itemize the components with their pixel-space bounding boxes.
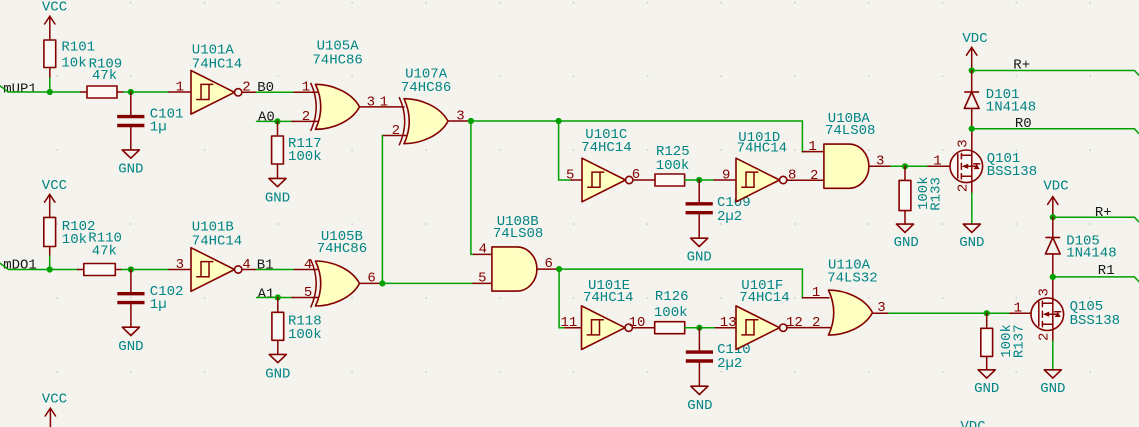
ground (Q101) [963, 224, 980, 232]
svg-text:2: 2 [812, 315, 820, 331]
svg-text:1: 1 [808, 139, 816, 155]
wire A0 [257, 120, 293, 122]
svg-text:10k: 10k [62, 232, 87, 248]
svg-text:5: 5 [478, 271, 486, 287]
svg-text:1µ: 1µ [150, 297, 167, 313]
svg-text:100k: 100k [288, 327, 322, 343]
svg-text:4: 4 [479, 242, 487, 258]
junction R102/mDO1 [47, 266, 53, 272]
wire U10BA out to Q101 gate [891, 165, 928, 167]
pin 8 (U101D) [787, 179, 824, 181]
ground (R133) [896, 224, 913, 232]
svg-text:GND: GND [687, 398, 712, 414]
svg-text:2µ2: 2µ2 [717, 209, 742, 225]
pin 4 (U105B) [295, 269, 319, 271]
svg-text:GND: GND [265, 191, 290, 207]
xor gate U107A 74HC86 [404, 99, 448, 144]
svg-text:GND: GND [265, 367, 290, 383]
svg-text:2: 2 [302, 109, 310, 125]
inverter U101E 74HC14 [565, 327, 582, 329]
svg-text:47k: 47k [92, 244, 117, 260]
wire R109 to U101A [124, 91, 170, 93]
xor gate U105A 74HC86 [316, 84, 360, 129]
svg-text:47k: 47k [92, 68, 117, 84]
and gate U108A 74LS08 [824, 144, 869, 188]
svg-text:1: 1 [933, 153, 941, 169]
junction C101 tap [128, 89, 134, 95]
transistor Q101 BSS138 [950, 150, 983, 183]
wire junction down to U108B pin4 [471, 121, 474, 254]
svg-text:B0: B0 [257, 80, 274, 96]
resistor R137 [986, 313, 988, 328]
svg-text:R126: R126 [655, 289, 689, 305]
svg-text:9: 9 [722, 167, 730, 183]
svg-text:3: 3 [876, 154, 884, 170]
junction R0 [969, 126, 975, 132]
pin 3 (U110A out) [873, 312, 889, 314]
svg-text:mUP1: mUP1 [3, 81, 37, 97]
transistor Q105 BSS138 [1031, 298, 1064, 331]
resistor R110 [78, 269, 84, 271]
resistor R101 [49, 68, 51, 79]
svg-text:100k: 100k [654, 305, 688, 321]
svg-text:BSS138: BSS138 [987, 164, 1037, 180]
pin 10 (U101E) [632, 327, 654, 329]
or gate U110A 74LS32 [829, 290, 873, 335]
svg-text:VCC: VCC [42, 178, 67, 194]
capacitor C110 [698, 328, 700, 352]
svg-text:R137: R137 [1012, 324, 1028, 358]
svg-text:3: 3 [877, 300, 885, 316]
svg-text:GND: GND [894, 235, 919, 251]
svg-text:74HC14: 74HC14 [737, 141, 787, 157]
svg-text:VDC: VDC [1043, 178, 1068, 194]
svg-text:74HC86: 74HC86 [401, 80, 451, 96]
svg-text:GND: GND [118, 162, 143, 178]
capacitor C102 [130, 270, 132, 294]
svg-text:74LS08: 74LS08 [825, 123, 875, 139]
junction U107A out [468, 118, 474, 124]
pin 4 (U101B) [242, 269, 257, 271]
svg-text:1: 1 [176, 80, 184, 96]
svg-text:1N4148: 1N4148 [986, 99, 1036, 115]
svg-text:8: 8 [788, 168, 796, 184]
svg-text:VCC: VCC [42, 0, 67, 15]
svg-text:6: 6 [545, 256, 553, 272]
svg-text:3: 3 [956, 139, 972, 147]
svg-text:6: 6 [367, 271, 375, 287]
svg-text:VDC: VDC [960, 419, 985, 427]
ground (C110) [691, 386, 708, 394]
xor gate U105B 74HC86 [316, 261, 360, 306]
svg-text:2: 2 [242, 80, 250, 96]
svg-text:1: 1 [302, 80, 310, 96]
svg-text:3: 3 [456, 108, 464, 124]
junction C110 tap [696, 325, 702, 331]
svg-text:2: 2 [1037, 333, 1053, 341]
wire U110A out to Q105 gate [889, 312, 1010, 314]
svg-text:13: 13 [720, 315, 737, 331]
junction R118 tap [275, 294, 281, 300]
svg-text:A1: A1 [258, 287, 275, 303]
svg-text:74LS32: 74LS32 [827, 271, 877, 287]
diode D101 1N4148 [971, 71, 973, 93]
capacitor C101 [130, 92, 132, 116]
svg-text:74HC86: 74HC86 [312, 53, 362, 69]
junction split to U101C [556, 118, 562, 124]
svg-text:3: 3 [1037, 288, 1053, 296]
svg-text:3: 3 [367, 94, 375, 110]
svg-text:GND: GND [974, 381, 999, 397]
inverter U101F 74HC14 [736, 306, 780, 350]
svg-text:1µ: 1µ [150, 120, 167, 136]
pin 4 (U108B) [474, 253, 493, 255]
resistor R117 [277, 121, 279, 136]
svg-text:74HC14: 74HC14 [192, 56, 242, 72]
ground (R118) [269, 354, 286, 362]
junction R+ top [969, 67, 975, 73]
resistor R126 [655, 322, 685, 334]
wire U107A out to U10BA pin1 [468, 121, 806, 152]
pin 9 (U101D) [714, 179, 736, 181]
pin 1 (Q105) [1010, 312, 1039, 314]
svg-text:GND: GND [118, 339, 143, 355]
pin 2 (U105A) [292, 120, 319, 122]
junction R101/mUP1 [47, 89, 53, 95]
svg-text:R101: R101 [61, 40, 95, 56]
svg-text:4: 4 [242, 257, 250, 273]
junction C109 tap [696, 177, 702, 183]
wire mUP1 net [0, 86, 81, 92]
junction R1 [1050, 274, 1056, 280]
svg-text:1: 1 [1014, 301, 1022, 317]
pin 3 (U107A out) [448, 120, 468, 122]
diode D105 1N4148 [1052, 217, 1054, 237]
junction U105B out [379, 280, 385, 286]
svg-text:10: 10 [629, 315, 646, 331]
svg-text:R+: R+ [1095, 205, 1112, 221]
svg-text:2µ2: 2µ2 [717, 356, 742, 372]
pin 1 (Q101) [928, 165, 958, 167]
wire down to U101C pin5 [559, 121, 571, 180]
wire down to U101E pin11 [559, 269, 565, 328]
svg-text:74HC14: 74HC14 [581, 140, 631, 156]
wire B1 [257, 269, 295, 271]
svg-text:6: 6 [632, 167, 640, 183]
junction R133 tap [902, 163, 908, 169]
svg-text:12: 12 [786, 315, 803, 331]
svg-text:mDO1: mDO1 [3, 258, 37, 274]
ground (R137) [978, 370, 995, 378]
resistor R125 [655, 174, 685, 186]
svg-text:GND: GND [959, 235, 984, 251]
inverter U101D 74HC14 [736, 158, 780, 202]
svg-text:1: 1 [812, 285, 820, 301]
wire R126 to U101F [685, 327, 716, 329]
inverter U101A 74HC14 [169, 91, 191, 93]
svg-text:2: 2 [810, 168, 818, 184]
pin 6 (U105B out) [360, 282, 381, 284]
pin 5 (U105B) [292, 297, 319, 299]
pin 3 (U105A out) / wire to U107A [360, 106, 405, 108]
junction U108B out [556, 266, 562, 272]
svg-text:BSS138: BSS138 [1070, 313, 1120, 329]
pin 3 (U10BA out) [869, 165, 891, 167]
svg-text:GND: GND [687, 249, 712, 265]
wire mDO1 net [0, 263, 78, 269]
wire U105B out up to U107A pin2 [381, 136, 383, 284]
svg-text:A0: A0 [258, 110, 275, 126]
svg-text:B1: B1 [257, 257, 274, 273]
junction R137 tap [984, 310, 990, 316]
wire R+ bottom [1053, 217, 1139, 222]
pin 2 (Q101 source) [971, 176, 973, 193]
junction R+ bottom [1050, 214, 1056, 220]
wire R110 to U101B [122, 269, 170, 271]
pin 12 (U101F) [787, 327, 831, 329]
svg-text:1: 1 [380, 94, 388, 110]
svg-text:R133: R133 [928, 177, 944, 211]
pin 3 (Q101 drain) [971, 129, 973, 156]
wire R+ top [972, 71, 1139, 76]
junction R117 tap [274, 118, 280, 124]
svg-text:1N4148: 1N4148 [1066, 246, 1116, 262]
ground (C109) [691, 238, 708, 246]
svg-text:74HC14: 74HC14 [739, 290, 789, 306]
pin 1 (U105A) [294, 91, 319, 93]
wire R1 [1053, 277, 1139, 282]
svg-text:74LS08: 74LS08 [493, 226, 543, 242]
pin 5 (U108B) [473, 282, 492, 284]
svg-text:100k: 100k [288, 149, 322, 165]
svg-text:74HC86: 74HC86 [317, 241, 367, 257]
wire B0 [257, 91, 295, 93]
wire Q101 source to ground [971, 193, 973, 224]
wire R125 to U101D [685, 179, 714, 181]
svg-text:GND: GND [1040, 381, 1065, 397]
pin 2 (U107A) [382, 135, 407, 137]
resistor R102 [44, 217, 56, 246]
pin 3 (Q105 drain) [1052, 277, 1054, 303]
svg-text:VCC: VCC [42, 392, 67, 408]
and gate U108B 74LS08 [492, 247, 537, 291]
pin 2 (Q105 source) [1052, 324, 1054, 341]
wire A1 [257, 297, 293, 299]
svg-text:10k: 10k [61, 55, 86, 71]
pin 6 (U108B out) [537, 268, 557, 270]
svg-text:3: 3 [176, 257, 184, 273]
svg-text:11: 11 [561, 315, 578, 331]
capacitor C109 [698, 180, 700, 204]
svg-text:2: 2 [956, 184, 972, 192]
wire R0 [972, 129, 1139, 134]
svg-text:74HC14: 74HC14 [192, 234, 242, 250]
resistor R109 [81, 91, 87, 93]
svg-text:5: 5 [304, 285, 312, 301]
pin 1 (U110A) [802, 297, 829, 299]
ground (Q105) [1044, 370, 1061, 378]
ground (C101) [122, 150, 139, 158]
svg-text:2: 2 [392, 123, 400, 139]
svg-text:5: 5 [566, 167, 574, 183]
pin 6 (U101C) [633, 179, 655, 181]
ground (C102) [122, 327, 139, 335]
wire Q105 source to ground [1052, 341, 1054, 370]
resistor R133 [904, 166, 906, 180]
pin 2 (U101A) [242, 91, 257, 93]
ground (R117) [269, 178, 286, 186]
inverter U101C 74HC14 [571, 179, 582, 181]
svg-text:74HC14: 74HC14 [583, 290, 633, 306]
inverter U101B 74HC14 [169, 269, 191, 271]
junction C102 tap [128, 266, 134, 272]
pin 13 (U101F) [716, 327, 737, 329]
svg-text:VDC: VDC [962, 31, 987, 47]
svg-text:100k: 100k [656, 158, 690, 174]
pin 1 (U10BA) [802, 151, 824, 153]
wire U108B out to U110A pin1 [559, 269, 806, 298]
resistor R118 [277, 298, 279, 313]
wire U105B out to U108B pin5 [382, 282, 473, 284]
